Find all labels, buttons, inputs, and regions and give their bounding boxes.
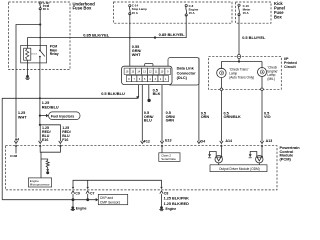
PCM box bbox=[6, 146, 278, 190]
wire kick fuse to splice bbox=[238, 15, 240, 55]
wire fuse PCM down to relay contact bbox=[39, 9, 41, 51]
svg-text:1.25 BLK/RED: 1.25 BLK/RED bbox=[164, 202, 190, 206]
svg-text:WHT: WHT bbox=[132, 53, 141, 57]
ground G101 bbox=[25, 75, 29, 79]
pin C8 connector bbox=[160, 187, 163, 207]
check engine lamp bbox=[258, 68, 267, 77]
pin E16 connector bbox=[39, 141, 42, 147]
PCM internal ground bus bbox=[73, 180, 162, 187]
wire label 0.85 BLK/YEL right bbox=[159, 32, 186, 37]
fuse C-10 label bbox=[243, 4, 252, 15]
inline connector oval bbox=[237, 54, 240, 58]
kick panel fuse box label bbox=[274, 1, 285, 20]
check trans lamp label bbox=[229, 68, 254, 80]
kick panel fuse box bbox=[236, 2, 272, 23]
dash fuse box bbox=[114, 2, 233, 23]
pin A14 connector bbox=[220, 141, 223, 158]
relay box PCM main relay bbox=[21, 45, 47, 63]
pin A4 label bbox=[15, 137, 19, 141]
wire label 1.25 RED/BLU E16 bbox=[42, 126, 51, 142]
output driver 2 bbox=[256, 156, 263, 163]
svg-text:Engine: Engine bbox=[76, 207, 87, 211]
junction dot C7 bbox=[86, 198, 89, 201]
svg-text:0.85 BLK/YEL: 0.85 BLK/YEL bbox=[83, 32, 110, 37]
svg-text:BLK: BLK bbox=[153, 92, 161, 96]
fuel injectors label bbox=[51, 114, 74, 118]
grommet left bbox=[220, 88, 223, 91]
svg-text:(MIL): (MIL) bbox=[267, 77, 274, 81]
wire label 1.25 WHT bbox=[18, 111, 27, 119]
grommet right bbox=[261, 88, 264, 91]
output driver 2 stub to ODM bbox=[258, 163, 260, 165]
fuse C-14 Stop Lamp bbox=[129, 5, 131, 15]
wire label 0.5 ORN bbox=[201, 111, 210, 119]
CKP/CMP label bbox=[100, 196, 121, 204]
data link connector shell bbox=[122, 64, 172, 85]
wire label 0.5 BLK bbox=[153, 88, 161, 96]
wire D4 0.5 ORN bbox=[198, 58, 200, 142]
wire label 0.5 BLK/BLU bbox=[101, 91, 125, 96]
ODM label bbox=[219, 167, 260, 171]
fuse PCM 30A bbox=[39, 2, 41, 10]
arrow to fuel injectors bbox=[40, 114, 49, 117]
pin A4 connector bbox=[14, 141, 17, 154]
junction dot C9 bbox=[72, 198, 75, 201]
svg-text:RED/BLU: RED/BLU bbox=[42, 106, 59, 110]
wire split to F16 bbox=[40, 125, 61, 141]
svg-text:ORN/BLK: ORN/BLK bbox=[224, 115, 242, 119]
wire check trans lamp to A14 bbox=[220, 78, 222, 142]
svg-text:30 A: 30 A bbox=[43, 7, 50, 11]
junction dot on lamp bus bbox=[238, 60, 240, 62]
fuse PCM 30A value label bbox=[43, 1, 50, 11]
junction dot bbox=[39, 23, 41, 25]
wire label 1.25 RED/BLU F16 bbox=[62, 126, 71, 142]
svg-text:Connector: Connector bbox=[177, 71, 197, 75]
wire label 0.55 GRN/WHT bbox=[132, 45, 142, 57]
svg-text:Box: Box bbox=[274, 15, 282, 20]
svg-text:C108: C108 bbox=[10, 154, 18, 158]
svg-text:Data Link: Data Link bbox=[177, 67, 195, 71]
svg-text:(DLC): (DLC) bbox=[177, 76, 188, 80]
wire label 0.85 BLK/YEL left bbox=[83, 32, 110, 37]
output driver 1 bbox=[215, 156, 222, 163]
svg-text:CMP Sensors: CMP Sensors bbox=[100, 200, 121, 204]
junction dot bbox=[129, 37, 131, 39]
svg-text:Fuel Injectors: Fuel Injectors bbox=[51, 114, 74, 118]
svg-text:A13: A13 bbox=[266, 139, 273, 143]
svg-text:0.5 BLK/BLU: 0.5 BLK/BLU bbox=[101, 91, 125, 96]
junction dot at split bbox=[39, 124, 41, 126]
svg-text:0.85 BLK/YEL: 0.85 BLK/YEL bbox=[159, 32, 186, 37]
pin C9 connector bbox=[71, 187, 74, 200]
output driver 2 sense arrow bbox=[249, 152, 257, 158]
I/P printed circuit label bbox=[284, 57, 297, 69]
svg-text:0.5 BLU/YEL: 0.5 BLU/YEL bbox=[242, 35, 266, 40]
pin F12 connector bbox=[141, 141, 144, 144]
pin D4 connector bbox=[197, 141, 200, 144]
output driver 1 sense arrow bbox=[208, 152, 216, 158]
wire label 1.25 BLK/PNK bbox=[164, 196, 190, 200]
svg-text:(Auto Trans Only): (Auto Trans Only) bbox=[229, 76, 254, 80]
wire relay output 1.25 RED/BLU bbox=[39, 57, 41, 142]
svg-text:Relay: Relay bbox=[50, 52, 59, 56]
svg-text:Engine: Engine bbox=[166, 207, 177, 211]
wire DLC pin to F12 bbox=[141, 85, 143, 142]
wire DLC pin 4 to ground dot bbox=[148, 85, 150, 99]
pin C8 label bbox=[164, 192, 169, 196]
DLC pin row bottom 8-1 bbox=[126, 75, 168, 81]
engine microprocessor label bbox=[30, 179, 50, 187]
wire label 0.5 VIO bbox=[264, 111, 271, 119]
svg-text:E13: E13 bbox=[165, 138, 171, 142]
ODM box bbox=[210, 165, 267, 172]
connector C108 label bbox=[10, 154, 18, 158]
junction fuel injector tap bbox=[39, 115, 41, 117]
resistor R bbox=[46, 160, 49, 169]
output driver 1 stub to ODM bbox=[218, 163, 220, 165]
svg-text:Circuit: Circuit bbox=[284, 65, 296, 69]
pin E13 connector bbox=[160, 141, 163, 153]
relay coil bbox=[24, 48, 31, 60]
svg-text:F16: F16 bbox=[62, 138, 68, 142]
relay contact bbox=[39, 50, 45, 58]
svg-text:Fuse Box: Fuse Box bbox=[73, 6, 93, 11]
PCM label bbox=[280, 145, 301, 162]
svg-text:ORN: ORN bbox=[201, 115, 210, 119]
pin A13 label bbox=[266, 139, 273, 143]
svg-text:(PCM): (PCM) bbox=[280, 157, 292, 162]
class 2 serial data label bbox=[161, 154, 176, 162]
svg-text:A14: A14 bbox=[225, 139, 232, 143]
relay label bbox=[50, 45, 59, 56]
wire label 0.5 BLU/YEL bbox=[242, 35, 266, 40]
svg-text:C7: C7 bbox=[90, 192, 95, 196]
svg-text:Microprocessor: Microprocessor bbox=[30, 182, 50, 186]
svg-text:15 A: 15 A bbox=[243, 11, 250, 15]
splice S155 bbox=[154, 36, 156, 38]
pin A13 connector bbox=[260, 141, 263, 157]
svg-text:1.25: 1.25 bbox=[42, 101, 49, 105]
check trans lamp bbox=[217, 68, 226, 77]
DLC label box bbox=[168, 58, 199, 85]
resistor branch wire bbox=[41, 159, 48, 160]
wire 0.55 GRN/WHT fuse to DLC pin 16 bbox=[129, 14, 131, 67]
wire label 0.5 ORN/BLK bbox=[224, 111, 242, 119]
fuse C-8 label bbox=[189, 4, 199, 15]
wire 0.85 BLK/YEL bbox=[28, 15, 187, 48]
wire check engine lamp to A13 bbox=[261, 77, 263, 142]
wire label 1.25 RED/BLU bbox=[42, 101, 59, 110]
pin F12 label bbox=[144, 140, 150, 144]
svg-text:15 A: 15 A bbox=[132, 11, 139, 15]
wire label 1.25 BLK/RED bbox=[164, 202, 190, 206]
CKP/CMP sensors box bbox=[98, 194, 127, 204]
resistor terminal bbox=[46, 169, 49, 174]
fuse C-10 Meter bbox=[238, 4, 240, 16]
pin C9 label bbox=[75, 192, 80, 196]
pin A14 label bbox=[225, 139, 232, 143]
fuse C-8 Engine bbox=[185, 5, 187, 17]
wire label 0.5 ORN/BRN bbox=[166, 111, 176, 123]
svg-text:C9: C9 bbox=[75, 192, 80, 196]
fuse C-14 label bbox=[132, 4, 147, 15]
pin C7 connector bbox=[86, 187, 89, 200]
engine microprocessor box bbox=[28, 178, 51, 187]
pin C7 label bbox=[90, 192, 95, 196]
arrowhead on BLK/BLU bbox=[136, 96, 139, 99]
pin E13 label bbox=[165, 138, 171, 142]
svg-text:C8: C8 bbox=[164, 192, 169, 196]
svg-text:E16: E16 bbox=[42, 138, 48, 142]
arrowhead into CKP box bbox=[96, 198, 99, 201]
svg-text:F12: F12 bbox=[144, 140, 150, 144]
pin F16 connector bbox=[59, 141, 62, 147]
wire label 0.5 ORN/BLU bbox=[144, 111, 154, 123]
ground line to sensors bbox=[2, 199, 96, 201]
svg-text:Serial Data: Serial Data bbox=[161, 157, 176, 161]
class 2 serial data box bbox=[159, 153, 180, 162]
ground terminal dot bbox=[147, 99, 150, 102]
engine ground right bbox=[159, 206, 163, 210]
I/P printed circuit box bbox=[209, 57, 282, 90]
svg-text:A4: A4 bbox=[15, 137, 19, 141]
DLC pin numbers top bbox=[126, 71, 169, 74]
svg-text:WHT: WHT bbox=[18, 115, 27, 119]
svg-text:BLU: BLU bbox=[144, 119, 152, 123]
check engine lamp label bbox=[267, 66, 278, 81]
wire splice to lamp bus bbox=[221, 59, 262, 69]
DLC pin row top 16-9 bbox=[124, 68, 171, 74]
svg-text:Output Driver Module (ODM): Output Driver Module (ODM) bbox=[219, 167, 260, 171]
relay actuation link bbox=[31, 53, 37, 55]
svg-text:D4: D4 bbox=[201, 139, 206, 143]
underhood fuse box bbox=[9, 2, 71, 70]
fuel injectors box bbox=[49, 112, 80, 120]
engine ground right label bbox=[166, 207, 177, 211]
wire DLC pin 2 to E13 bbox=[161, 85, 163, 142]
DLC pin numbers bottom bbox=[128, 78, 167, 81]
wire DLC ground pin to 0.5 BLK/BLU bbox=[2, 85, 138, 200]
DLC label text bbox=[177, 67, 197, 81]
underhood fuse box label bbox=[73, 1, 96, 10]
junction dot at fuse wire bbox=[39, 37, 41, 39]
engine ground left label bbox=[76, 207, 87, 211]
engine ground left bbox=[71, 200, 75, 211]
junction dot at BLK/BLU crossing bbox=[39, 97, 41, 99]
wire E16/F16 rejoin inside PCM bbox=[40, 147, 60, 178]
svg-text:VIO: VIO bbox=[264, 115, 271, 119]
svg-text:GRN: GRN bbox=[166, 119, 175, 123]
wire relay coil to ground bbox=[27, 60, 29, 75]
svg-text:1.25 BLK/PNK: 1.25 BLK/PNK bbox=[164, 196, 190, 200]
wire branch to PCM A4 bbox=[16, 25, 40, 142]
pin D4 label bbox=[201, 139, 206, 143]
svg-text:15 A: 15 A bbox=[189, 11, 196, 15]
